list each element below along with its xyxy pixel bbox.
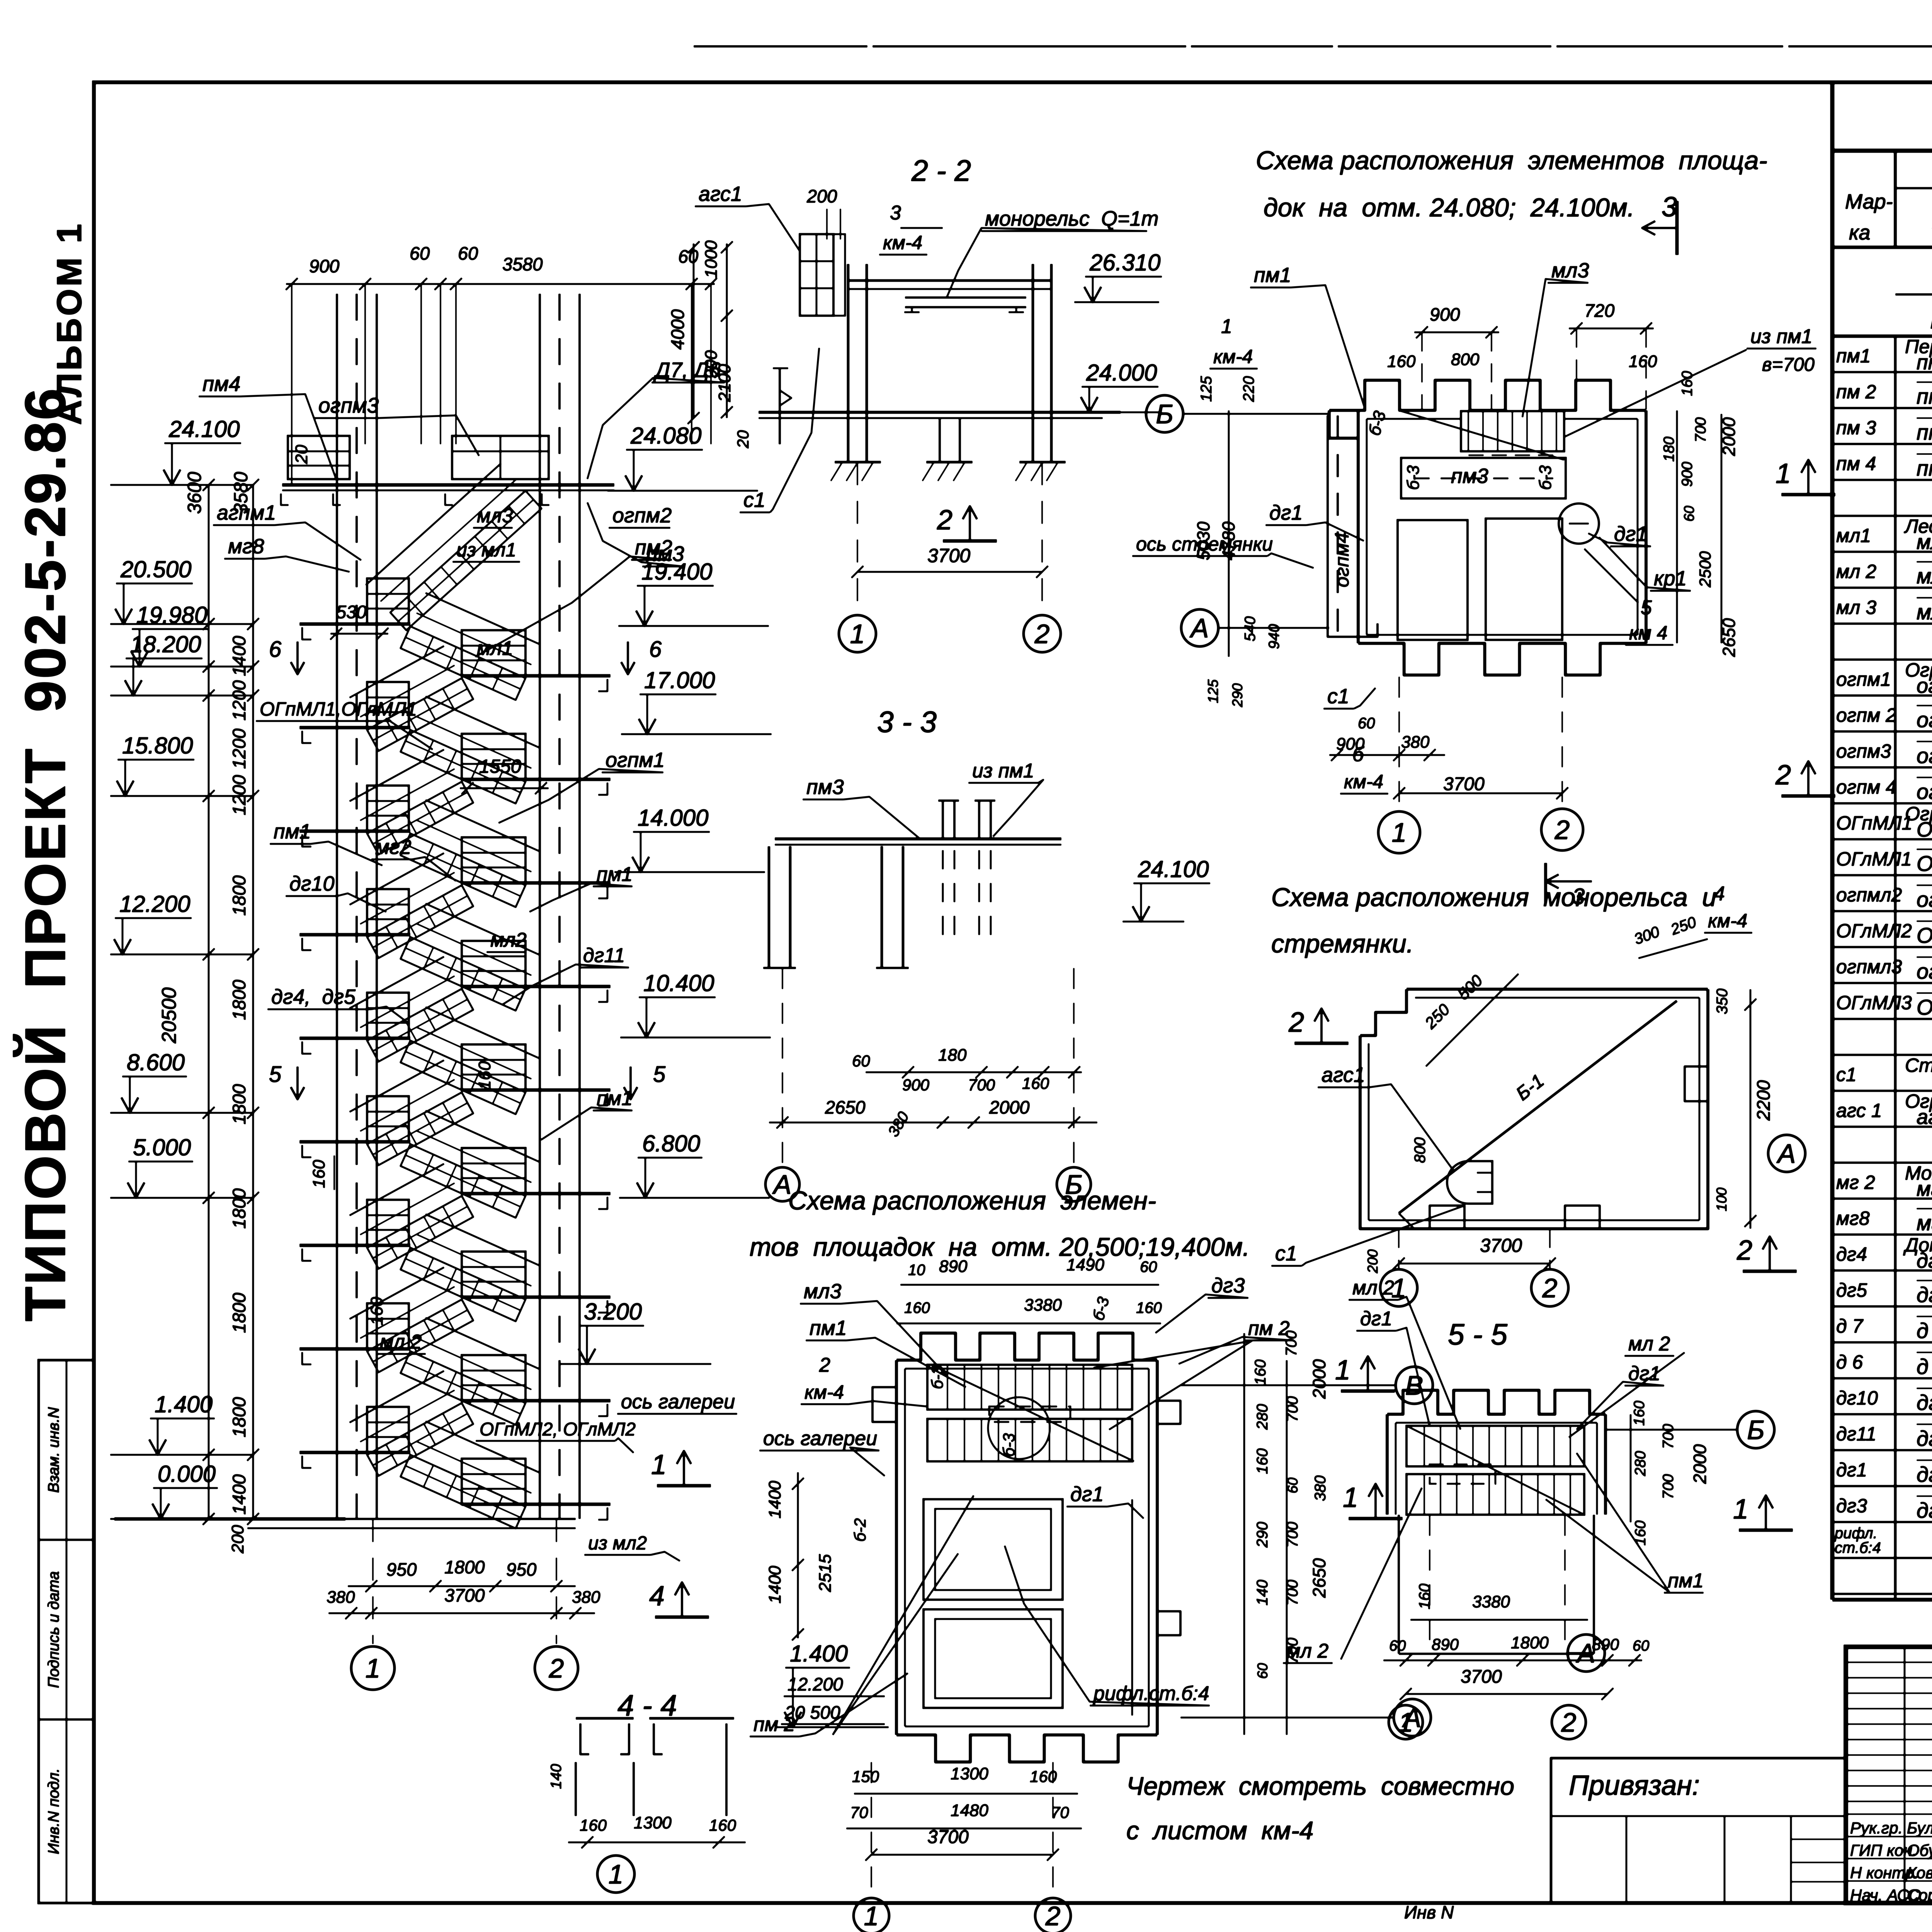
svg-text:Обух: Обух bbox=[1907, 1841, 1932, 1859]
svg-text:огпмл3: огпмл3 bbox=[1836, 956, 1902, 978]
svg-text:160: 160 bbox=[1629, 352, 1657, 371]
svg-text:дг 11: дг 11 bbox=[1917, 1426, 1932, 1451]
svg-text:пмгф-9.8: пмгф-9.8 bbox=[1917, 351, 1932, 374]
svg-text:160: 160 bbox=[1387, 352, 1416, 371]
svg-text:1400: 1400 bbox=[229, 1474, 249, 1515]
svg-text:60: 60 bbox=[852, 1052, 870, 1070]
svg-text:из пм1: из пм1 bbox=[1750, 325, 1813, 348]
svg-text:3600: 3600 bbox=[184, 472, 205, 514]
svg-text:700: 700 bbox=[1284, 1396, 1301, 1422]
svg-text:890: 890 bbox=[1592, 1635, 1619, 1653]
svg-text:дг3: дг3 bbox=[1211, 1274, 1245, 1297]
svg-text:1550: 1550 bbox=[479, 756, 521, 777]
svg-text:ОГпМЛ1: ОГпМЛ1 bbox=[1836, 812, 1912, 834]
svg-text:км-4: км-4 bbox=[1344, 771, 1383, 793]
svg-text:Сорокин: Сорокин bbox=[1907, 1886, 1932, 1904]
svg-text:0.000: 0.000 bbox=[158, 1461, 216, 1487]
svg-text:380: 380 bbox=[1401, 733, 1430, 752]
svg-text:2: 2 bbox=[819, 1354, 830, 1376]
svg-text:1800: 1800 bbox=[229, 980, 249, 1020]
svg-text:мл3: мл3 bbox=[477, 505, 513, 527]
svg-text:380: 380 bbox=[572, 1588, 600, 1607]
svg-text:3380: 3380 bbox=[1472, 1592, 1510, 1611]
svg-text:д 6: д 6 bbox=[1917, 1354, 1932, 1379]
svg-text:с1: с1 bbox=[743, 488, 765, 512]
svg-text:пм1: пм1 bbox=[597, 1087, 633, 1110]
svg-text:огпм 4: огпм 4 bbox=[1836, 776, 1896, 798]
svg-text:530: 530 bbox=[336, 602, 366, 622]
svg-text:дг1: дг1 bbox=[1070, 1483, 1104, 1506]
svg-text:Взам. инв.N: Взам. инв.N bbox=[45, 1407, 62, 1493]
svg-text:пмгф - 36.10: пмгф - 36.10 bbox=[1917, 420, 1932, 444]
svg-text:док на отм. 24.080; 24.100м: док на отм. 24.080; 24.100м. bbox=[1264, 193, 1634, 222]
svg-text:Схема расположения монорельса: Схема расположения монорельса и bbox=[1271, 883, 1716, 912]
svg-text:20.500: 20.500 bbox=[120, 556, 192, 582]
svg-text:1800: 1800 bbox=[444, 1557, 485, 1577]
svg-text:3: 3 bbox=[1662, 192, 1677, 223]
svg-text:160: 160 bbox=[904, 1299, 930, 1316]
svg-text:2: 2 bbox=[1034, 619, 1050, 649]
svg-text:5 - 5: 5 - 5 bbox=[1448, 1318, 1508, 1351]
svg-text:ОГпМЛ2, ОГлМЛ2: ОГпМЛ2, ОГлМЛ2 bbox=[480, 1419, 636, 1440]
svg-text:огпмлг 45 - 10.36: огпмлг 45 - 10.36 bbox=[1917, 959, 1932, 983]
svg-text:Схема расположения элементов: Схема расположения элементов площа- bbox=[1256, 146, 1767, 175]
svg-text:26.310: 26.310 bbox=[1089, 250, 1161, 276]
svg-text:агс1: агс1 bbox=[699, 182, 742, 206]
svg-text:24.080: 24.080 bbox=[630, 423, 702, 449]
svg-text:пм2: пм2 bbox=[635, 536, 672, 559]
svg-text:1800: 1800 bbox=[229, 1084, 249, 1124]
svg-text:1: 1 bbox=[1343, 1482, 1358, 1513]
svg-text:ка: ка bbox=[1849, 221, 1871, 244]
svg-text:10: 10 bbox=[908, 1262, 925, 1279]
svg-text:3700: 3700 bbox=[927, 545, 970, 566]
svg-text:2: 2 bbox=[1775, 760, 1791, 791]
svg-text:60: 60 bbox=[1633, 1638, 1650, 1654]
svg-text:5030: 5030 bbox=[1194, 522, 1213, 560]
svg-text:4: 4 bbox=[649, 1581, 665, 1612]
svg-text:ОГпМЛ1,ОГлМЛ1: ОГпМЛ1,ОГлМЛ1 bbox=[260, 698, 417, 720]
svg-text:б-3: б-3 bbox=[1000, 1433, 1018, 1457]
svg-text:160: 160 bbox=[1136, 1299, 1162, 1316]
svg-text:125: 125 bbox=[1198, 376, 1215, 402]
svg-text:дг10: дг10 bbox=[1917, 1390, 1932, 1415]
svg-text:пм1: пм1 bbox=[810, 1316, 847, 1340]
svg-text:км 4: км 4 bbox=[1629, 622, 1668, 644]
svg-text:дг 1: дг 1 bbox=[1917, 1462, 1932, 1486]
svg-text:мл 2: мл 2 bbox=[1628, 1333, 1670, 1355]
svg-text:1000: 1000 bbox=[702, 240, 721, 278]
svg-text:8.600: 8.600 bbox=[127, 1049, 185, 1075]
svg-text:дг11: дг11 bbox=[583, 944, 625, 967]
svg-text:140: 140 bbox=[1254, 1580, 1271, 1605]
svg-text:2: 2 bbox=[549, 1653, 564, 1684]
svg-text:900: 900 bbox=[309, 256, 339, 276]
svg-text:3700: 3700 bbox=[927, 1827, 969, 1847]
svg-text:800: 800 bbox=[1412, 1137, 1429, 1163]
svg-text:3: 3 bbox=[890, 202, 901, 224]
svg-text:3 - 3: 3 - 3 bbox=[877, 706, 937, 739]
svg-text:д 6: д 6 bbox=[1836, 1351, 1863, 1373]
svg-text:мл3: мл3 bbox=[1551, 259, 1589, 282]
svg-text:1800: 1800 bbox=[229, 1293, 249, 1333]
svg-text:160: 160 bbox=[1022, 1074, 1049, 1092]
svg-text:350: 350 bbox=[1714, 988, 1731, 1014]
svg-text:2: 2 bbox=[1288, 1007, 1304, 1038]
svg-text:ОГлМЛГ 45 - 10.18: ОГлМЛГ 45 - 10.18 bbox=[1917, 923, 1932, 947]
svg-text:19.980: 19.980 bbox=[136, 602, 207, 628]
svg-text:180: 180 bbox=[1661, 437, 1677, 462]
svg-text:160: 160 bbox=[1254, 1448, 1271, 1474]
svg-text:пм1: пм1 bbox=[274, 820, 311, 843]
svg-text:1800: 1800 bbox=[229, 875, 249, 916]
svg-text:2: 2 bbox=[937, 505, 952, 536]
svg-text:3700: 3700 bbox=[1443, 774, 1485, 794]
svg-text:3.200: 3.200 bbox=[584, 1299, 642, 1325]
svg-text:20: 20 bbox=[734, 430, 752, 449]
svg-text:2000: 2000 bbox=[1690, 1444, 1710, 1484]
svg-text:км-4: км-4 bbox=[883, 232, 922, 253]
svg-text:огпм3: огпм3 bbox=[1836, 740, 1891, 762]
svg-text:огпмэб - 10.15: огпмэб - 10.15 bbox=[1917, 707, 1932, 732]
svg-text:720: 720 bbox=[1584, 300, 1614, 321]
svg-text:пм1: пм1 bbox=[1836, 345, 1871, 367]
svg-text:950: 950 bbox=[386, 1559, 417, 1580]
svg-text:2: 2 bbox=[1561, 1708, 1577, 1738]
svg-text:20500: 20500 bbox=[158, 987, 180, 1044]
svg-text:ОГлМЛ2: ОГлМЛ2 bbox=[1836, 920, 1912, 942]
svg-text:мл2: мл2 bbox=[490, 929, 527, 951]
svg-text:огпм3: огпм3 bbox=[318, 393, 379, 417]
svg-text:1200: 1200 bbox=[229, 680, 249, 721]
svg-text:б-3: б-3 bbox=[1536, 465, 1555, 490]
svg-text:огпмэб - 10.42: огпмэб - 10.42 bbox=[1917, 779, 1932, 804]
svg-text:5: 5 bbox=[269, 1062, 282, 1087]
svg-text:Схема расположения элемен-: Схема расположения элемен- bbox=[788, 1186, 1156, 1215]
svg-text:мл 2: мл 2 bbox=[380, 1331, 422, 1353]
svg-text:огпм1: огпм1 bbox=[605, 748, 665, 772]
svg-text:Ковалинина: Ковалинина bbox=[1907, 1864, 1932, 1882]
svg-text:2: 2 bbox=[1736, 1235, 1752, 1266]
svg-text:дг4: дг4 bbox=[1917, 1249, 1932, 1272]
svg-text:1.400: 1.400 bbox=[155, 1391, 213, 1417]
svg-text:тов площадок на отм. 20,500: тов площадок на отм. 20,500;19,400м. bbox=[750, 1233, 1250, 1262]
svg-text:км-4: км-4 bbox=[1708, 910, 1747, 932]
svg-text:14.000: 14.000 bbox=[638, 805, 709, 831]
svg-text:160: 160 bbox=[1679, 371, 1696, 396]
svg-text:1400: 1400 bbox=[765, 1566, 784, 1604]
svg-text:100: 100 bbox=[1714, 1187, 1730, 1211]
svg-text:1: 1 bbox=[609, 1859, 624, 1889]
svg-text:мг 8: мг 8 bbox=[1917, 1211, 1932, 1235]
svg-text:пм4: пм4 bbox=[202, 372, 241, 396]
svg-text:3380: 3380 bbox=[1024, 1296, 1062, 1315]
svg-text:700: 700 bbox=[1284, 1522, 1301, 1548]
svg-text:1: 1 bbox=[366, 1653, 381, 1684]
svg-text:пмгф - 15.8: пмгф - 15.8 bbox=[1917, 384, 1932, 408]
svg-text:дг4, дг5: дг4, дг5 bbox=[271, 985, 356, 1009]
svg-text:160: 160 bbox=[580, 1816, 607, 1834]
svg-text:380: 380 bbox=[1312, 1475, 1329, 1501]
svg-text:Стремянка сг 40: Стремянка сг 40 bbox=[1905, 1054, 1932, 1076]
svg-text:пм 4: пм 4 bbox=[1836, 453, 1876, 474]
svg-text:дг 3: дг 3 bbox=[1917, 1498, 1932, 1522]
svg-text:1300: 1300 bbox=[951, 1764, 988, 1783]
svg-text:2000: 2000 bbox=[1309, 1359, 1329, 1399]
svg-text:160: 160 bbox=[475, 1061, 494, 1090]
svg-text:60: 60 bbox=[1255, 1663, 1270, 1679]
svg-text:1: 1 bbox=[1335, 1355, 1350, 1386]
svg-text:мг 2: мг 2 bbox=[1917, 1177, 1932, 1201]
svg-text:из пм1: из пм1 bbox=[972, 760, 1034, 782]
svg-text:4000: 4000 bbox=[667, 309, 688, 350]
svg-text:мл 2: мл 2 bbox=[1287, 1640, 1328, 1662]
svg-text:1800: 1800 bbox=[229, 1397, 249, 1437]
svg-text:6: 6 bbox=[649, 637, 662, 662]
svg-text:с1: с1 bbox=[1327, 685, 1349, 708]
svg-text:млгф 45-18.8: млгф 45-18.8 bbox=[1917, 564, 1932, 588]
svg-text:1800: 1800 bbox=[229, 1188, 249, 1229]
svg-text:огпм4: огпм4 bbox=[1331, 532, 1353, 587]
svg-text:с листом км-4: с листом км-4 bbox=[1126, 1816, 1314, 1845]
svg-text:с1: с1 bbox=[1836, 1064, 1857, 1085]
svg-text:мг 2: мг 2 bbox=[1836, 1172, 1875, 1193]
svg-text:А: А bbox=[1776, 1139, 1796, 1169]
svg-text:160: 160 bbox=[310, 1160, 328, 1188]
svg-text:380: 380 bbox=[327, 1588, 355, 1607]
svg-text:пмгв - 18.10: пмгв - 18.10 bbox=[1917, 456, 1932, 480]
svg-text:2100: 2100 bbox=[715, 364, 734, 402]
svg-text:60: 60 bbox=[678, 246, 698, 267]
svg-text:20: 20 bbox=[292, 445, 311, 464]
svg-text:км-4: км-4 bbox=[804, 1381, 844, 1403]
svg-text:пм3: пм3 bbox=[1451, 464, 1488, 488]
svg-text:монорельс Q=1т: монорельс Q=1т bbox=[985, 207, 1158, 230]
svg-text:1: 1 bbox=[651, 1449, 667, 1480]
svg-text:б-3: б-3 bbox=[1404, 465, 1423, 490]
svg-text:2650: 2650 bbox=[1719, 618, 1739, 657]
svg-text:ТИПОВОЙ ПРОЕКТ 902-5-29.86: ТИПОВОЙ ПРОЕКТ 902-5-29.86 bbox=[13, 387, 77, 1321]
svg-text:огпм1: огпм1 bbox=[1836, 668, 1891, 690]
svg-text:1: 1 bbox=[1733, 1494, 1748, 1525]
svg-text:2650: 2650 bbox=[825, 1097, 866, 1117]
svg-text:огпм 2: огпм 2 bbox=[1836, 704, 1896, 726]
svg-text:дг1: дг1 bbox=[1614, 522, 1648, 546]
svg-text:ОГлМЛГ 45 - 10.36: ОГлМЛГ 45 - 10.36 bbox=[1917, 995, 1932, 1019]
svg-text:180: 180 bbox=[938, 1046, 967, 1065]
svg-text:890: 890 bbox=[1432, 1635, 1459, 1653]
svg-text:160: 160 bbox=[709, 1816, 736, 1834]
svg-text:70: 70 bbox=[1051, 1803, 1069, 1821]
svg-text:200: 200 bbox=[1365, 1249, 1381, 1274]
svg-text:1800: 1800 bbox=[1511, 1633, 1549, 1652]
svg-text:стремянки.: стремянки. bbox=[1271, 929, 1413, 958]
svg-text:Б: Б bbox=[1156, 399, 1173, 429]
svg-text:2: 2 bbox=[1542, 1273, 1558, 1303]
svg-text:пм1: пм1 bbox=[1668, 1570, 1704, 1592]
svg-text:дг10: дг10 bbox=[289, 872, 335, 895]
svg-text:б-2: б-2 bbox=[851, 1518, 869, 1542]
svg-text:1400: 1400 bbox=[765, 1481, 784, 1519]
svg-text:мг8: мг8 bbox=[1836, 1207, 1870, 1229]
svg-text:мл1: мл1 bbox=[1836, 525, 1871, 546]
svg-text:700: 700 bbox=[1660, 1474, 1677, 1499]
svg-text:мл 2: мл 2 bbox=[1352, 1277, 1394, 1299]
svg-text:1.400: 1.400 bbox=[790, 1641, 848, 1667]
svg-text:150: 150 bbox=[852, 1767, 879, 1786]
svg-text:Инв.N подл.: Инв.N подл. bbox=[45, 1768, 62, 1854]
svg-text:дг1: дг1 bbox=[1360, 1308, 1392, 1330]
svg-text:Чертеж смотреть совместно: Чертеж смотреть совместно bbox=[1126, 1772, 1514, 1800]
svg-text:900: 900 bbox=[902, 1076, 930, 1094]
svg-text:1400: 1400 bbox=[229, 636, 249, 676]
svg-text:2: 2 bbox=[1554, 815, 1570, 845]
svg-text:125: 125 bbox=[1205, 679, 1221, 703]
svg-text:пм3: пм3 bbox=[806, 776, 844, 799]
svg-text:млгф 60- 36.8: млгф 60- 36.8 bbox=[1917, 600, 1932, 624]
svg-text:2000: 2000 bbox=[989, 1097, 1030, 1117]
svg-text:20 500: 20 500 bbox=[784, 1702, 840, 1723]
svg-text:60: 60 bbox=[1140, 1259, 1157, 1276]
svg-text:Подпись и дата: Подпись и дата bbox=[45, 1571, 62, 1688]
svg-text:д 7: д 7 bbox=[1917, 1318, 1932, 1343]
svg-text:200: 200 bbox=[228, 1525, 247, 1554]
svg-text:1480: 1480 bbox=[951, 1801, 988, 1820]
svg-text:1: 1 bbox=[850, 619, 865, 649]
svg-text:200: 200 bbox=[806, 186, 837, 206]
svg-text:дг1: дг1 bbox=[1269, 501, 1303, 524]
svg-text:2200: 2200 bbox=[1753, 1080, 1774, 1121]
svg-text:800: 800 bbox=[1451, 350, 1480, 369]
svg-text:пм1: пм1 bbox=[597, 863, 633, 886]
svg-text:2000: 2000 bbox=[1719, 417, 1739, 456]
svg-text:млгф 45-12.8: млгф 45-12.8 bbox=[1917, 531, 1932, 554]
svg-text:160: 160 bbox=[1632, 1520, 1649, 1546]
svg-text:в=700: в=700 bbox=[1762, 354, 1815, 375]
svg-text:дг5: дг5 bbox=[1836, 1279, 1867, 1301]
svg-text:Привязан:: Привязан: bbox=[1569, 1770, 1700, 1801]
svg-text:ось галереи: ось галереи bbox=[763, 1427, 877, 1450]
svg-text:ОГлМЛ1: ОГлМЛ1 bbox=[1836, 848, 1912, 870]
svg-text:км-4: км-4 bbox=[1213, 346, 1253, 367]
svg-text:6.800: 6.800 bbox=[642, 1131, 700, 1156]
svg-text:60: 60 bbox=[1358, 715, 1375, 732]
svg-text:огпмл2: огпмл2 bbox=[1836, 884, 1902, 906]
svg-text:5.000: 5.000 bbox=[133, 1134, 191, 1160]
svg-text:700: 700 bbox=[1660, 1424, 1677, 1449]
svg-text:24.100: 24.100 bbox=[1138, 856, 1209, 882]
svg-text:6: 6 bbox=[269, 637, 282, 662]
svg-text:290: 290 bbox=[1230, 683, 1245, 707]
svg-text:19.400: 19.400 bbox=[641, 559, 713, 585]
svg-text:18.200: 18.200 bbox=[130, 631, 201, 657]
svg-text:10.400: 10.400 bbox=[643, 970, 714, 996]
svg-text:4780: 4780 bbox=[1219, 522, 1238, 560]
svg-text:из мл2: из мл2 bbox=[588, 1533, 647, 1554]
svg-text:280: 280 bbox=[1632, 1451, 1649, 1476]
svg-text:Мар-: Мар- bbox=[1845, 190, 1893, 213]
svg-text:Рук.гр.: Рук.гр. bbox=[1850, 1819, 1903, 1837]
svg-text:Б: Б bbox=[1747, 1415, 1765, 1445]
svg-text:А: А bbox=[1189, 613, 1209, 643]
svg-text:1: 1 bbox=[864, 1901, 879, 1931]
svg-text:огпм2: огпм2 bbox=[612, 504, 672, 527]
svg-text:пм 2: пм 2 bbox=[1836, 381, 1876, 403]
svg-text:17.000: 17.000 bbox=[644, 667, 715, 693]
svg-text:160: 160 bbox=[367, 1297, 386, 1325]
svg-text:из мл1: из мл1 bbox=[456, 539, 516, 561]
svg-text:ст.б:4: ст.б:4 bbox=[1835, 1539, 1881, 1556]
svg-text:3580: 3580 bbox=[502, 254, 543, 274]
svg-text:4: 4 bbox=[1714, 883, 1725, 905]
svg-text:пм 3: пм 3 bbox=[1836, 417, 1876, 439]
svg-text:Наименование: Наименование bbox=[1930, 305, 1932, 334]
svg-text:3700: 3700 bbox=[444, 1585, 485, 1605]
svg-text:1200: 1200 bbox=[229, 728, 249, 769]
svg-text:140: 140 bbox=[548, 1764, 565, 1789]
svg-text:2 - 2: 2 - 2 bbox=[911, 154, 971, 187]
svg-text:700: 700 bbox=[968, 1076, 995, 1094]
svg-text:950: 950 bbox=[506, 1559, 536, 1580]
svg-text:1: 1 bbox=[1776, 458, 1791, 489]
svg-text:мл3: мл3 bbox=[804, 1280, 842, 1303]
svg-text:1: 1 bbox=[1392, 818, 1407, 848]
svg-text:мл 3: мл 3 bbox=[1836, 597, 1876, 618]
svg-text:2515: 2515 bbox=[816, 1554, 835, 1592]
svg-text:ось галереи: ось галереи bbox=[621, 1391, 735, 1413]
svg-text:Булатова: Булатова bbox=[1907, 1819, 1932, 1837]
svg-text:1490: 1490 bbox=[1066, 1255, 1104, 1274]
svg-text:огпмэб - 10.9.: огпмэб - 10.9. bbox=[1917, 674, 1932, 697]
svg-text:280: 280 bbox=[1254, 1404, 1271, 1430]
svg-text:2500: 2500 bbox=[1696, 551, 1714, 588]
svg-text:с1: с1 bbox=[1275, 1242, 1297, 1265]
svg-text:1: 1 bbox=[1398, 1708, 1413, 1738]
svg-text:24.000: 24.000 bbox=[1086, 360, 1157, 386]
svg-text:70: 70 bbox=[850, 1803, 868, 1821]
svg-text:1: 1 bbox=[1221, 315, 1232, 338]
svg-text:ОГлМЛ3: ОГлМЛ3 bbox=[1836, 992, 1912, 1014]
svg-text:дг10: дг10 bbox=[1836, 1387, 1878, 1409]
svg-text:пм1: пм1 bbox=[1254, 264, 1291, 287]
svg-text:дг4: дг4 bbox=[1836, 1243, 1867, 1265]
svg-text:д 7: д 7 bbox=[1836, 1315, 1864, 1337]
svg-text:дг11: дг11 bbox=[1836, 1423, 1876, 1445]
svg-text:дг3: дг3 bbox=[1836, 1495, 1867, 1517]
svg-text:12.200: 12.200 bbox=[787, 1674, 843, 1694]
svg-text:дг1: дг1 bbox=[1836, 1459, 1867, 1481]
svg-text:12.200: 12.200 bbox=[119, 891, 190, 917]
svg-text:2: 2 bbox=[1045, 1901, 1061, 1931]
svg-text:15.800: 15.800 bbox=[122, 733, 193, 759]
svg-text:900: 900 bbox=[1430, 304, 1460, 325]
svg-text:ОГлМЛГ 45 - 10.12: ОГлМЛГ 45 - 10.12 bbox=[1917, 851, 1932, 876]
svg-text:мг2: мг2 bbox=[375, 835, 412, 859]
svg-text:60: 60 bbox=[410, 243, 430, 264]
svg-text:5: 5 bbox=[1641, 597, 1652, 619]
svg-text:кр1: кр1 bbox=[1654, 567, 1687, 590]
svg-text:мл1: мл1 bbox=[477, 637, 513, 660]
svg-text:900: 900 bbox=[1679, 462, 1696, 487]
svg-text:160: 160 bbox=[1631, 1401, 1648, 1426]
svg-text:1300: 1300 bbox=[634, 1813, 672, 1832]
svg-text:890: 890 bbox=[939, 1257, 968, 1276]
svg-text:160: 160 bbox=[1416, 1583, 1433, 1609]
svg-text:ОГпМЛ1 45-10.12: ОГпМЛ1 45-10.12 bbox=[1917, 818, 1932, 841]
svg-text:3700: 3700 bbox=[1461, 1667, 1502, 1687]
svg-text:агс1: агс1 bbox=[1321, 1063, 1365, 1087]
svg-text:700: 700 bbox=[1692, 417, 1709, 442]
